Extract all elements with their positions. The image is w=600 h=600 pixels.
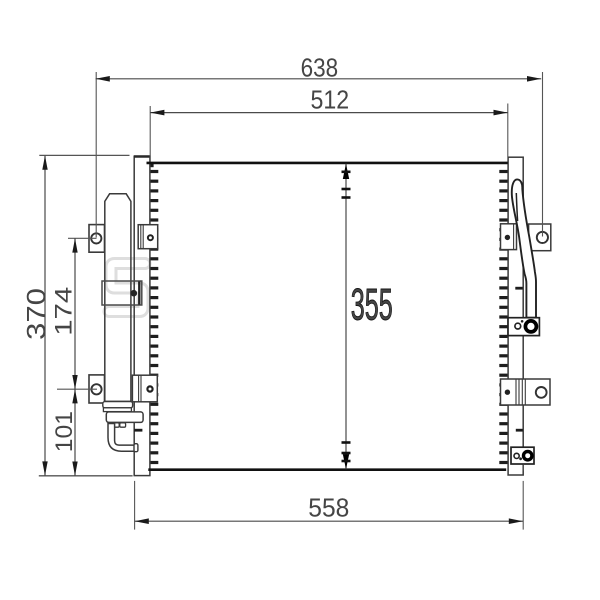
dim 355 line (345, 164, 347, 470)
drier outlet elbow pipe (108, 424, 134, 452)
svg-text:174: 174 (50, 287, 77, 336)
tube row mark right lower (516, 429, 523, 432)
dim 558 line (135, 520, 523, 522)
dim 558 right centerline dash (522, 465, 524, 471)
dim 512 arrows (150, 110, 164, 116)
dim 638 line (96, 78, 542, 80)
sight glass block (102, 281, 142, 305)
drier upper bracket hole (91, 233, 101, 243)
tube row mark left (134, 429, 142, 432)
drier upper mounting bracket (89, 225, 105, 253)
left fin corner notch (150, 164, 154, 167)
dim 558 extension right (522, 481, 524, 530)
drier lower bracket hole (91, 384, 101, 394)
drier bottom flange 2 (103, 408, 131, 412)
drier lower clamp on side plate (132, 375, 157, 402)
elbow end cap (134, 444, 138, 452)
right upper clamp block (501, 224, 517, 250)
dim 512 line (150, 112, 508, 114)
core top header line (147, 162, 508, 165)
right lower bracket (501, 379, 551, 405)
left side plate top edge (134, 155, 150, 158)
drier outlet plate (106, 412, 143, 423)
svg-text:638: 638 (301, 53, 339, 83)
left side plate (134, 156, 150, 475)
dim 512 extension right (507, 104, 509, 157)
dim 638 extension right (542, 72, 544, 237)
dim 101 arrows (72, 389, 77, 403)
dim 370 extension top (39, 154, 129, 156)
right upper bracket arm (529, 224, 551, 251)
drier bottom flange 1 (103, 402, 133, 408)
dim 174 extension top (68, 237, 97, 239)
svg-text:512: 512 (311, 85, 350, 115)
right fin louvers (499, 172, 507, 463)
right side plate (508, 157, 523, 475)
svg-text:101: 101 (51, 411, 78, 452)
dim 370/101 extension bottom (39, 475, 133, 477)
upper port fitting (508, 318, 539, 336)
drier lower mounting bracket (89, 375, 105, 403)
tube row mark right upper (515, 287, 522, 290)
dim 174 and 101 line (74, 238, 76, 475)
dim 370 line (44, 156, 46, 476)
dim 638 arrows (96, 76, 110, 82)
pipe inner bend line (516, 193, 517, 221)
dim 174 arrows (72, 238, 77, 252)
dim 638 extension left (95, 72, 97, 238)
dim 370 arrows (42, 156, 47, 170)
dim 355 arrows (343, 164, 349, 179)
core bottom header line (148, 468, 506, 471)
dim 512 extension left (149, 106, 151, 162)
watermark S logo (109, 264, 145, 312)
receiver drier body (105, 194, 131, 402)
dim 174/101 extension mid (57, 388, 97, 390)
dim 558 arrows (135, 518, 149, 524)
drier upper clamp on side plate (138, 225, 158, 249)
svg-text:370: 370 (21, 288, 51, 340)
svg-text:355: 355 (351, 280, 393, 329)
dim 558 extension left (134, 481, 136, 530)
right inlet pipe (512, 179, 536, 317)
left fin louvers (150, 172, 158, 463)
dim 355 tick marks (342, 172, 351, 461)
lower port fitting (511, 447, 534, 464)
outlet fitting tabs (113, 423, 119, 427)
svg-text:558: 558 (308, 493, 349, 523)
